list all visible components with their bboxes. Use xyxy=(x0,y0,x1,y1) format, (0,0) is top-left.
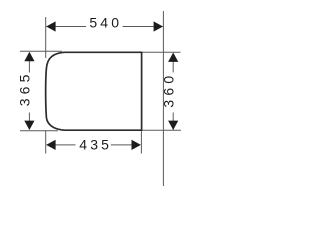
svg-text:540: 540 xyxy=(89,15,122,31)
svg-text:435: 435 xyxy=(79,136,112,152)
svg-text:365: 365 xyxy=(16,70,32,106)
svg-text:360: 360 xyxy=(161,72,177,108)
